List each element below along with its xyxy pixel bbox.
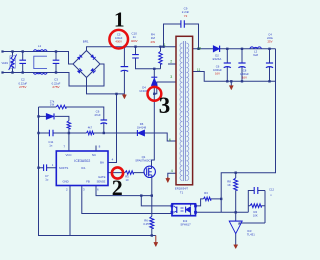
svg-text:3: 3: [170, 75, 172, 79]
svg-text:1W: 1W: [50, 103, 55, 107]
svg-text:C12: C12: [269, 188, 274, 192]
svg-text:10: 10: [126, 178, 129, 182]
svg-text:16V: 16V: [242, 76, 247, 80]
svg-text:16V: 16V: [215, 71, 220, 75]
svg-text:4: 4: [171, 169, 173, 173]
svg-text:R4: R4: [254, 210, 258, 214]
svg-text:T1: T1: [180, 190, 184, 194]
svg-text:GND: GND: [62, 179, 68, 183]
svg-text:2W: 2W: [151, 40, 156, 44]
svg-text:275V: 275V: [19, 85, 27, 89]
svg-text:25V: 25V: [268, 39, 273, 43]
svg-text:C4: C4: [268, 32, 272, 36]
svg-text:NC: NC: [92, 153, 96, 157]
svg-text:R6: R6: [144, 219, 148, 223]
svg-text:1n: 1n: [49, 143, 53, 147]
svg-text:VAR1: VAR1: [2, 61, 9, 65]
svg-text:GATE: GATE: [98, 175, 106, 179]
svg-text:275V: 275V: [52, 85, 60, 89]
svg-text:1N4148: 1N4148: [137, 125, 147, 129]
svg-text:2: 2: [112, 175, 123, 200]
svg-text:47uF: 47uF: [94, 113, 101, 117]
svg-text:C8: C8: [243, 69, 247, 73]
svg-text:D6: D6: [140, 122, 144, 126]
svg-text:10K: 10K: [253, 213, 258, 217]
svg-text:SOFTS: SOFTS: [59, 166, 68, 170]
svg-text:11: 11: [197, 68, 201, 72]
svg-text:4k7: 4k7: [88, 125, 93, 129]
svg-text:SENSE: SENSE: [97, 179, 106, 183]
svg-text:C6: C6: [216, 64, 220, 68]
svg-text:ES2KA: ES2KA: [213, 57, 222, 61]
svg-text:1: 1: [164, 43, 166, 47]
svg-text:C5: C5: [117, 32, 121, 36]
svg-text:3: 3: [159, 93, 171, 118]
svg-text:400V: 400V: [115, 40, 122, 44]
svg-text:ICE3AS02: ICE3AS02: [74, 159, 90, 163]
svg-text:1: 1: [114, 7, 125, 31]
svg-text:400V: 400V: [131, 39, 138, 43]
svg-text:SPA07N60C3: SPA07N60C3: [135, 159, 152, 163]
svg-text:1K: 1K: [227, 183, 231, 187]
svg-text:VCC: VCC: [65, 153, 71, 157]
svg-text:0.25: 0.25: [143, 222, 149, 226]
svg-text:BR1: BR1: [83, 39, 89, 43]
svg-text:2: 2: [170, 60, 172, 64]
svg-text:TL431: TL431: [247, 233, 255, 237]
svg-text:Q1: Q1: [142, 155, 146, 159]
svg-text:D2: D2: [215, 53, 219, 57]
svg-text:L1: L1: [38, 44, 42, 48]
svg-text:IC1: IC1: [81, 166, 86, 170]
svg-text:BA: BA: [100, 161, 104, 165]
svg-text:6u8: 6u8: [253, 53, 258, 57]
svg-text:FB: FB: [86, 179, 90, 183]
svg-text:10: 10: [197, 46, 201, 50]
svg-text:1u: 1u: [45, 178, 49, 182]
svg-text:Y2: Y2: [184, 14, 188, 18]
svg-text:R3: R3: [204, 191, 208, 195]
svg-text:6: 6: [169, 138, 171, 142]
svg-text:SFH617: SFH617: [180, 223, 191, 227]
